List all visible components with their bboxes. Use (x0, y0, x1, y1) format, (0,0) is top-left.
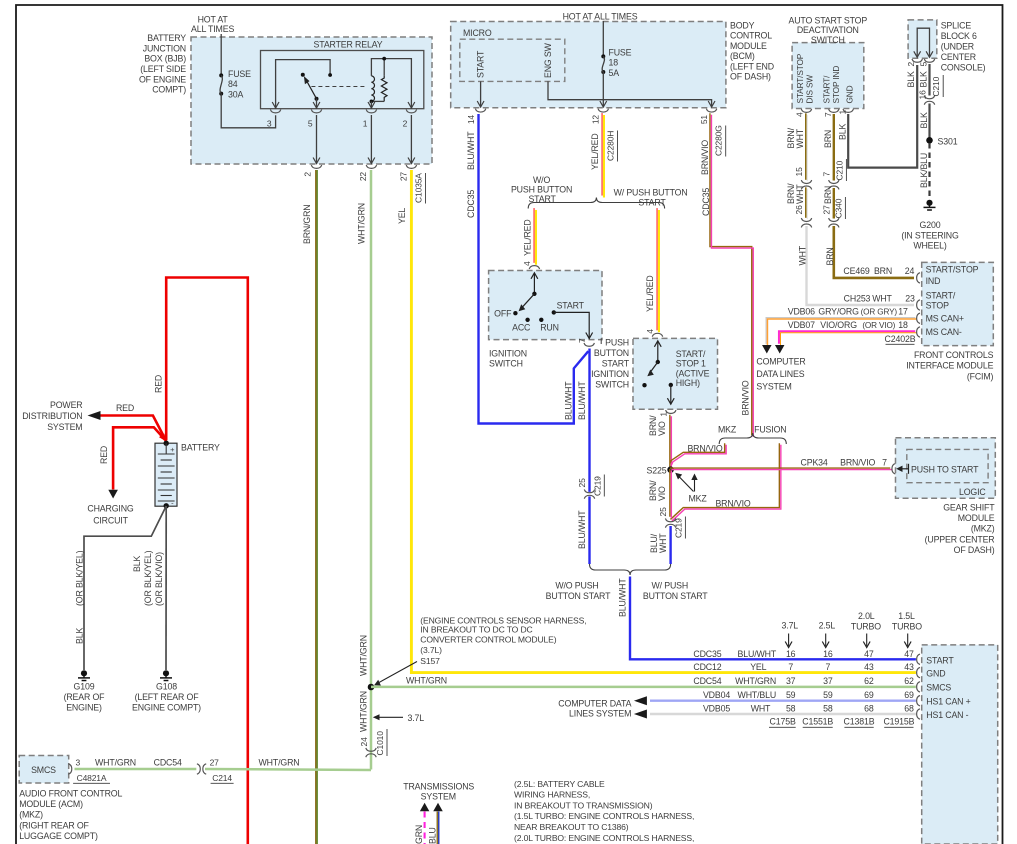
wire BLK deact pin 1 to splice block (848, 65, 917, 168)
svg-text:LUGGAGE COMPT): LUGGAGE COMPT) (19, 831, 98, 841)
pin 22 label (358, 172, 368, 182)
label YEL/RED (stem) (590, 133, 600, 170)
label START (micro) (476, 50, 486, 78)
svg-text:CDC54: CDC54 (154, 757, 182, 767)
svg-text:(UNDER: (UNDER (941, 42, 974, 52)
wire RED to power distribution (98, 416, 166, 442)
SMCS exit cup (68, 764, 71, 774)
label WHT/GRN CDC54 (95, 757, 182, 767)
row START cup (917, 654, 920, 664)
arrow S157 note to splice (374, 662, 417, 686)
svg-text:START: START (638, 197, 666, 207)
svg-text:2: 2 (906, 62, 916, 67)
wire BRN/VIO BCM pin 51 riser (710, 113, 752, 435)
svg-text:(IN STEERING: (IN STEERING (901, 230, 959, 240)
connector C340 pin 26 (794, 205, 812, 227)
svg-text:59: 59 (786, 690, 796, 700)
svg-text:RED: RED (154, 375, 164, 393)
gear shift module enclosure (896, 438, 996, 499)
svg-text:GEAR SHIFT: GEAR SHIFT (943, 503, 995, 513)
wire VDB06 GRY/ORG (766, 318, 915, 344)
svg-text:C4821A: C4821A (77, 773, 107, 783)
wire BRN/VIO start/stop pin1 to S225 (669, 415, 671, 469)
label FUSE 18 5A (609, 48, 632, 78)
svg-text:12: 12 (591, 115, 601, 125)
svg-text:CE469: CE469 (843, 266, 869, 276)
svg-text:43: 43 (864, 662, 874, 672)
annotation 3.7L (373, 713, 424, 723)
label BRN/GRN (302, 204, 312, 244)
svg-text:IN BREAKOUT TO DC TO DC: IN BREAKOUT TO DC TO DC (420, 625, 532, 635)
BJB exit cups (311, 165, 416, 168)
battery (155, 441, 177, 509)
svg-text:CONTROL: CONTROL (730, 31, 772, 41)
svg-text:C2402B: C2402B (885, 334, 916, 344)
label W/O PUSH BUTTON START (bottom) (546, 581, 611, 601)
label MKZ (brace) (718, 425, 737, 435)
svg-text:CPK34: CPK34 (801, 457, 828, 467)
label BLU/WHT (below C219 left) (577, 510, 587, 549)
svg-text:2.0L: 2.0L (858, 611, 875, 621)
svg-text:7: 7 (823, 112, 833, 117)
label COMPUTER DATA LINES SYSTEM (right) (756, 357, 805, 392)
wire VDB05 WHT (650, 713, 916, 715)
start/stop contact left (642, 383, 646, 387)
engine variant module enclosure (922, 645, 998, 844)
svg-text:GND: GND (926, 669, 945, 679)
connector C1551B (802, 717, 833, 728)
svg-text:FUSE: FUSE (228, 69, 251, 79)
label row VDB04 WHT/BLU pins (703, 690, 914, 700)
label CE469 BRN 24 (843, 266, 914, 276)
label BLK (splice left) (906, 71, 916, 87)
relay coil top bus to pin 2 (371, 57, 414, 109)
svg-text:ENGINE): ENGINE) (66, 702, 102, 712)
FCIM pin 24 cup (917, 273, 920, 283)
connector C2280G (714, 125, 726, 156)
svg-text:BRN/VIO: BRN/VIO (687, 443, 722, 453)
pin 2 label (303, 172, 313, 177)
svg-text:3: 3 (76, 757, 81, 767)
wire RED battery trunk (166, 278, 248, 844)
label RED (charging) (99, 446, 109, 464)
svg-text:BLK: BLK (75, 628, 85, 644)
ignition switch enclosure (489, 271, 602, 340)
contact ACC (512, 318, 531, 333)
ground G200 (924, 200, 936, 210)
start/stop 1 enclosure (633, 338, 718, 409)
arrow to transmissions (right) (433, 803, 443, 812)
svg-text:AUTO START STOP: AUTO START STOP (789, 16, 868, 26)
connector C210 pin 16 (917, 75, 943, 105)
wire YEL/RED to ignition switch (533, 208, 535, 263)
svg-text:3.7L: 3.7L (782, 621, 799, 631)
svg-text:(FCIM): (FCIM) (967, 371, 994, 381)
ground G109 (78, 670, 90, 680)
svg-text:CH253: CH253 (844, 293, 871, 303)
relay switch contact (301, 73, 319, 101)
label BLU/WHT (stem) (618, 578, 628, 617)
svg-text:S157: S157 (420, 656, 440, 666)
label BRN/VIO (riser to brace) (740, 380, 750, 415)
svg-text:(LEFT SIDE: (LEFT SIDE (140, 64, 186, 74)
label PUSH BUTTON START IGNITION SWITCH (591, 338, 630, 390)
svg-text:BATTERY: BATTERY (181, 443, 220, 453)
label BRN/ VIO (below S225) (648, 480, 667, 501)
label BLK (to S301) (919, 112, 929, 128)
svg-text:GRY/ORG: GRY/ORG (818, 306, 859, 316)
label GEAR SHIFT MODULE (MKZ) (925, 503, 996, 556)
svg-text:CDC35: CDC35 (466, 190, 476, 218)
label CPK34 BRN/VIO 7 (801, 457, 888, 467)
svg-text:HOT AT ALL TIMES: HOT AT ALL TIMES (563, 12, 638, 22)
svg-text:4: 4 (794, 112, 804, 117)
wire BRN deact pin 7 seg1 (833, 114, 835, 181)
svg-text:START/: START/ (676, 349, 706, 359)
svg-text:AUDIO FRONT CONTROL: AUDIO FRONT CONTROL (19, 789, 122, 799)
svg-text:COMPUTER DATA: COMPUTER DATA (558, 698, 631, 708)
wire BLK/BLU dashed to G200 (928, 143, 930, 199)
connector C4821A (73, 773, 110, 784)
svg-text:C1010: C1010 (375, 731, 385, 756)
svg-text:CENTER: CENTER (941, 52, 976, 62)
svg-text:BRN: BRN (823, 186, 833, 204)
wire micro START to pin 14 (477, 81, 484, 107)
svg-text:7: 7 (822, 172, 832, 177)
label row CDC12 YEL pins (693, 662, 914, 672)
push to start logic box (907, 449, 988, 482)
label W/ PUSH BUTTON START (bottom) (643, 581, 708, 601)
svg-text:BLU/WHT: BLU/WHT (577, 510, 587, 549)
svg-text:S225: S225 (647, 465, 667, 475)
svg-text:3: 3 (267, 119, 272, 129)
svg-text:(OR BLK/VIO): (OR BLK/VIO) (154, 552, 164, 606)
svg-text:BLU/WHT: BLU/WHT (738, 649, 777, 659)
svg-text:SYSTEM: SYSTEM (756, 382, 791, 392)
relay coil bottom to pin 1 (368, 100, 384, 109)
svg-text:MKZ: MKZ (718, 425, 737, 435)
wire BRN deact pin 7 seg2 (833, 188, 835, 219)
svg-text:MODULE (ACM): MODULE (ACM) (19, 799, 83, 809)
connector C219 pin 25 (left) (577, 475, 605, 499)
svg-text:VDB04: VDB04 (703, 690, 730, 700)
svg-text:68: 68 (904, 704, 914, 714)
arrow computer data lines (VDB05) (634, 710, 647, 719)
column arrow 3.7L (785, 634, 792, 648)
svg-text:C219: C219 (592, 476, 602, 496)
svg-text:69: 69 (864, 690, 874, 700)
svg-text:YEL/RED: YEL/RED (590, 133, 600, 170)
pin 5 label (splice) (919, 62, 929, 67)
svg-text:WHT/GRN: WHT/GRN (95, 757, 136, 767)
label BLK (G109) (75, 628, 85, 644)
svg-text:BRN: BRN (823, 130, 833, 148)
svg-text:7: 7 (577, 338, 587, 343)
relay pin cups (270, 110, 416, 113)
svg-text:4: 4 (645, 329, 655, 334)
label 1.5L TURBO column (892, 611, 922, 632)
svg-text:24: 24 (359, 737, 369, 747)
battery arrowhead (159, 434, 166, 442)
label FRONT CONTROLS INTERFACE MODULE (FCIM) (906, 350, 993, 381)
wire BRN/WHT deact pin 4 seg2 (805, 187, 807, 218)
label (OR BLK/VIO) (G108) (154, 552, 164, 606)
svg-text:30A: 30A (228, 89, 243, 99)
row HS1 CAN- cup (917, 709, 920, 719)
wire WHT/GRN C214 to riser (205, 769, 371, 770)
svg-text:DIS SW: DIS SW (804, 75, 814, 104)
connector C1010 pin 24 (359, 729, 387, 757)
label BLU/WHT (pin7 wire) (577, 381, 587, 420)
svg-text:SWITCH: SWITCH (489, 359, 523, 369)
svg-text:(REAR OF: (REAR OF (64, 692, 106, 702)
arrow to power distribution system (88, 411, 101, 420)
wire BRN/WHT deact pin 4 seg1 (805, 113, 807, 180)
label TRANSMISSIONS SYSTEM (403, 782, 474, 802)
label FCIM pin names (926, 265, 979, 338)
svg-text:23: 23 (905, 293, 915, 303)
svg-text:(OR VIO): (OR VIO) (862, 321, 895, 330)
column arrow 1.5L (904, 634, 911, 648)
brace MKZ vs FUSION (719, 433, 786, 444)
svg-text:5: 5 (919, 62, 929, 67)
svg-text:BUTTON START: BUTTON START (546, 591, 611, 601)
label BODY CONTROL MODULE (730, 21, 774, 82)
label AUDIO FRONT CONTROL MODULE (ACM) (19, 789, 122, 841)
wire VDB04 WHT/BLU (650, 700, 916, 702)
svg-text:START/STOP: START/STOP (926, 265, 979, 275)
column arrow 2.5L (822, 634, 829, 648)
label G200 (IN STEERING WHEEL) (901, 220, 959, 251)
svg-text:DATA LINES: DATA LINES (756, 369, 804, 379)
svg-text:TURBO: TURBO (851, 622, 881, 632)
contact RUN (539, 318, 559, 333)
row SMCS cup (917, 682, 920, 692)
label GND (switch) (845, 85, 855, 103)
svg-text:WHT: WHT (751, 704, 771, 714)
svg-text:(LEFT REAR OF: (LEFT REAR OF (135, 692, 200, 702)
svg-text:W/O: W/O (533, 175, 550, 185)
label RED (power dist) (116, 403, 134, 413)
svg-text:62: 62 (864, 676, 874, 686)
svg-text:C340: C340 (833, 198, 843, 218)
pin 14 label (466, 115, 476, 125)
svg-text:BLK: BLK (838, 124, 848, 140)
label BLU/WHT (riser) (563, 381, 573, 420)
svg-text:(1.5L TURBO: ENGINE CONTROLS H: (1.5L TURBO: ENGINE CONTROLS HARNESS, (514, 811, 694, 821)
wire hot feed to fuse 18 (602, 21, 604, 56)
wire BRN/VIO MKZ branch to S225 (670, 443, 725, 463)
connector C214 pin 27 (197, 757, 234, 783)
connector C210 pin 7 (822, 159, 847, 189)
label ENG SW (micro) (543, 42, 553, 78)
svg-text:(UPPER CENTER: (UPPER CENTER (925, 534, 995, 544)
wire VDB07 VIO/ORG (779, 331, 915, 344)
svg-text:C2280H: C2280H (606, 131, 616, 161)
arrow to charging circuit (108, 490, 118, 499)
FCIM pin 17 cup (917, 313, 920, 323)
svg-text:WIRING HARNESS,: WIRING HARNESS, (514, 790, 590, 800)
label (OR BLK/YEL) (G109) (75, 550, 85, 606)
svg-text:BRN/VIO: BRN/VIO (700, 140, 710, 175)
svg-text:BODY: BODY (730, 21, 755, 31)
svg-text:BLU/WHT: BLU/WHT (563, 381, 573, 420)
label BLK (G108) (132, 556, 142, 572)
label W/ PUSH BUTTON START (top) (614, 188, 688, 208)
wire YEL (pin 27) to GND row (411, 170, 916, 673)
svg-text:62: 62 (904, 676, 914, 686)
svg-text:16: 16 (823, 649, 833, 659)
label VDB07 VIO/ORG (OR VIO) 18 (788, 320, 908, 330)
svg-text:27: 27 (822, 205, 832, 215)
label SMCS (31, 765, 56, 775)
svg-text:START: START (528, 194, 556, 204)
svg-text:(LEFT END: (LEFT END (730, 61, 774, 71)
svg-text:CIRCUIT: CIRCUIT (93, 515, 128, 525)
label START/STOP DIS SW (795, 53, 815, 103)
pin 51 label (699, 115, 709, 125)
connector C2280H (606, 131, 618, 162)
ignition pivot dot (532, 292, 536, 296)
svg-text:22: 22 (358, 172, 368, 182)
svg-text:MODULE: MODULE (730, 41, 767, 51)
connector C1915B (883, 717, 914, 728)
starter relay box (261, 51, 424, 109)
svg-text:RED: RED (99, 446, 109, 464)
label BLK (splice right) (919, 71, 929, 87)
connector C210 pin 15 (794, 167, 812, 189)
label G109 (REAR OF ENGINE) (64, 682, 106, 713)
connector C219 pin 25 (right) (658, 507, 685, 539)
splice block internal link (914, 28, 933, 57)
svg-text:START/: START/ (822, 75, 832, 104)
label POWER DISTRIBUTION SYSTEM (22, 400, 82, 432)
label MICRO (463, 28, 492, 38)
svg-text:WHT/GRN: WHT/GRN (359, 691, 369, 732)
svg-text:YEL/RED: YEL/RED (645, 275, 655, 312)
pin 4 label (deact) (794, 112, 804, 117)
label BATTERY (181, 443, 220, 453)
label BRN/ WHT (seg1) (786, 127, 805, 148)
svg-text:C2280G: C2280G (714, 125, 724, 156)
svg-text:HS1 CAN +: HS1 CAN + (926, 697, 970, 707)
svg-text:G108: G108 (156, 682, 177, 692)
relay actuation dashed link (311, 86, 367, 88)
svg-text:(RIGHT REAR OF: (RIGHT REAR OF (19, 820, 89, 830)
svg-text:START/STOP: START/STOP (795, 53, 805, 103)
label BLU (transmission wire) (427, 827, 437, 844)
label W/O PUSH BUTTON START (top) (511, 175, 572, 204)
svg-text:VIO/ORG: VIO/ORG (820, 320, 857, 330)
svg-text:WHT: WHT (795, 128, 805, 148)
label WHT/GRN (356, 203, 366, 244)
svg-text:LINES SYSTEM: LINES SYSTEM (569, 709, 631, 719)
svg-text:BRN/GRN: BRN/GRN (302, 204, 312, 244)
svg-text:G109: G109 (74, 682, 95, 692)
column arrow 2.0L (863, 634, 870, 648)
label BRN/VIO (FUSION branch) (715, 498, 750, 508)
wire VIO/BLU to transmissions (436, 812, 438, 844)
pin 7 label (deact) (823, 112, 833, 117)
wire micro ENG SW to pin 51 (548, 81, 715, 107)
svg-text:BUTTON: BUTTON (594, 348, 629, 358)
svg-text:C1915B: C1915B (883, 717, 914, 727)
splice block 6 enclosure (908, 20, 937, 58)
svg-text:7: 7 (882, 457, 887, 467)
svg-text:BRN/VIO: BRN/VIO (740, 380, 750, 415)
svg-text:WHT/BLU: WHT/BLU (738, 690, 777, 700)
svg-text:25: 25 (577, 478, 587, 488)
svg-text:DISTRIBUTION: DISTRIBUTION (22, 411, 82, 421)
arrow to computer data lines (VDB07) (775, 345, 785, 354)
svg-text:C210: C210 (834, 160, 844, 180)
svg-text:TURBO: TURBO (892, 622, 922, 632)
label WHT (below C340) (798, 245, 808, 265)
svg-text:CONVERTER CONTROL MODULE): CONVERTER CONTROL MODULE) (420, 634, 556, 644)
ignition pin 4 arrow (531, 273, 538, 294)
svg-text:27: 27 (210, 757, 220, 767)
svg-text:7: 7 (826, 662, 831, 672)
auto start stop deactivation switch enclosure (792, 43, 864, 109)
svg-text:STARTER RELAY: STARTER RELAY (314, 40, 383, 50)
svg-text:C1551B: C1551B (802, 717, 833, 727)
start/stop output to pin 1 (667, 385, 674, 405)
ignition arm to OFF (519, 294, 535, 312)
svg-text:CHARGING: CHARGING (87, 504, 134, 514)
svg-text:WHT/GRN: WHT/GRN (735, 676, 776, 686)
svg-text:BLU/WHT: BLU/WHT (466, 131, 476, 170)
svg-text:84: 84 (228, 79, 238, 89)
fuse F84 30A (219, 73, 223, 95)
svg-text:47: 47 (904, 649, 914, 659)
wire BRN/GRN (pin 2) (315, 170, 317, 844)
front controls interface module enclosure (922, 262, 994, 345)
svg-text:WHT/GRN: WHT/GRN (356, 203, 366, 244)
wire PNK/GRN dashed to transmissions (424, 812, 426, 844)
svg-text:W/O PUSH: W/O PUSH (555, 581, 598, 591)
label STARTER RELAY (314, 40, 383, 50)
gear shift module pin 7 cup (892, 464, 895, 474)
label LOGIC (959, 487, 986, 497)
ignition pin 4 entry cup (522, 261, 540, 269)
svg-text:FRONT CONTROLS: FRONT CONTROLS (914, 350, 994, 360)
label BRN (seg1) (823, 130, 833, 148)
splice block exit cups (912, 59, 935, 62)
pin 3 label (SMCS) (76, 757, 81, 767)
connector C340 pin 27 (822, 197, 846, 227)
svg-text:OFF: OFF (494, 309, 512, 319)
svg-text:C214: C214 (212, 773, 232, 783)
svg-text:4: 4 (522, 261, 532, 266)
svg-text:WHT/GRN: WHT/GRN (259, 757, 300, 767)
wire RED to charging circuit (113, 427, 166, 489)
wire BLK to S301 (928, 104, 930, 141)
svg-text:CDC35: CDC35 (693, 649, 721, 659)
svg-text:47: 47 (864, 649, 874, 659)
wire relay pin 1 to BJB exit (368, 115, 375, 164)
svg-text:59: 59 (823, 690, 833, 700)
svg-text:BLU/WHT: BLU/WHT (618, 578, 628, 617)
wire BRN to FCIM pin 24 (834, 226, 914, 278)
row GND cup (917, 667, 920, 677)
label WHT/GRN (riser above S157) (359, 635, 369, 676)
svg-text:BOX (BJB): BOX (BJB) (144, 54, 186, 64)
svg-text:18: 18 (898, 320, 908, 330)
relay suppression resistor (381, 76, 387, 102)
arrow to transmissions (left) (420, 803, 430, 812)
connector C1381B (844, 717, 875, 728)
label BJB (139, 33, 186, 95)
